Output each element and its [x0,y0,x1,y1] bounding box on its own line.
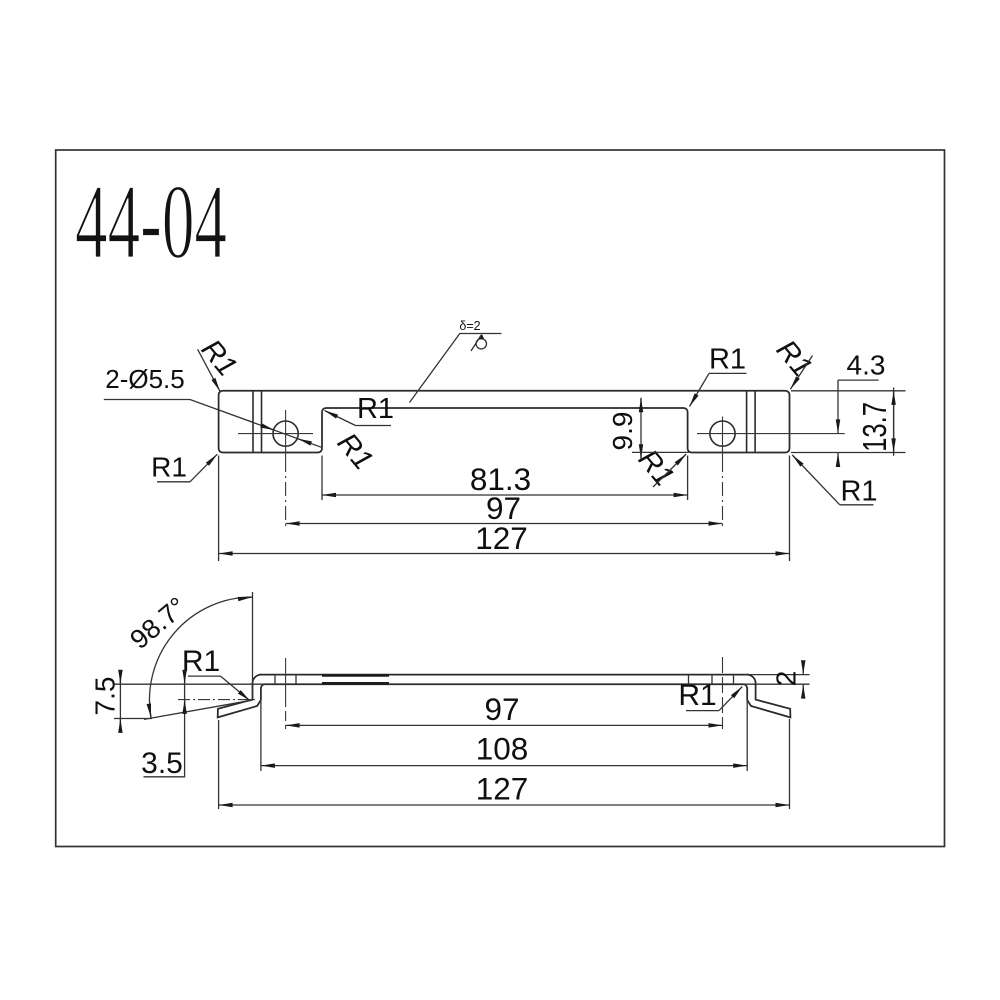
plate bottom surface [264,683,743,685]
drawing frame border [56,150,945,847]
hole right [710,421,735,446]
right flange profile [744,675,791,718]
hole centerline right (side view) [722,657,724,729]
bend line right 2 [754,391,756,452]
bend line left 1 [252,391,254,452]
svg-text:R1: R1 [151,452,187,483]
hole right crosshair [697,433,845,435]
bend line left 2 [261,391,263,452]
svg-text:3.5: 3.5 [141,747,183,780]
hole centerline left (side view) [285,658,287,697]
svg-text:R1: R1 [331,427,379,476]
hole left [273,421,298,446]
bend line right 1 [746,391,748,452]
svg-text:9.9: 9.9 [607,412,638,451]
svg-text:44-04: 44-04 [75,164,227,282]
hole left crosshair [238,433,313,435]
svg-text:R1: R1 [709,344,746,376]
svg-text:127: 127 [475,520,528,556]
svg-text:R1: R1 [840,476,877,508]
svg-text:7.5: 7.5 [90,677,121,716]
svg-text:2: 2 [771,671,802,687]
svg-text:127: 127 [476,771,529,807]
svg-text:R1: R1 [678,679,716,712]
svg-text:4.3: 4.3 [847,350,886,381]
svg-text:13.7: 13.7 [856,402,893,452]
plate top surface [260,674,749,676]
svg-text:108: 108 [476,731,529,767]
svg-text:2-Ø5.5: 2-Ø5.5 [105,364,185,394]
recessed band (thick) [322,674,389,677]
tick marks on plate [274,675,276,685]
svg-text:R1: R1 [182,645,220,678]
svg-text:R1: R1 [357,393,394,425]
svg-text:δ=2: δ=2 [459,319,480,333]
svg-text:97: 97 [484,691,519,727]
part outline with notch [219,391,790,453]
bend zone dash-dot line [178,699,258,701]
left flange profile [218,675,265,718]
